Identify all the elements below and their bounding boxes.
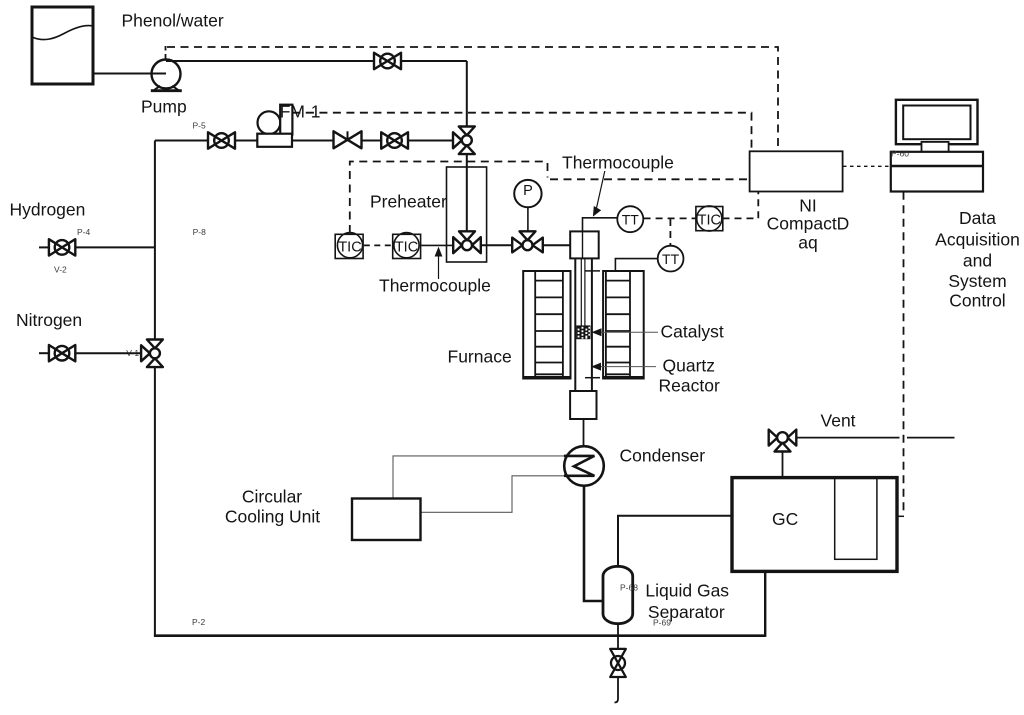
wire port box to TT1 [583,218,618,231]
svg-text:Catalyst: Catalyst [661,321,724,341]
svg-text:Phenol/water: Phenol/water [122,10,224,30]
svg-text:V-2: V-2 [54,264,67,274]
dashed signal pump to NI [165,46,167,59]
wire nitrogen to junction valve [75,352,141,354]
svg-text:Data: Data [959,208,996,228]
wire separator to GC [618,516,732,566]
wire preheater valve to P valve to port box [481,244,570,246]
valve on P-5 line [208,132,235,148]
GC box [732,478,897,572]
wire hydrogen to main line [75,246,155,248]
wire bottom horizontal [154,634,765,637]
flow meter FM-1 [257,105,292,147]
vent valve [769,430,797,452]
svg-text:Reactor: Reactor [659,375,720,395]
wire hydrogen stub [39,246,49,248]
computer base [891,152,983,192]
wire to condenser [583,419,585,447]
svg-text:Acquisition: Acquisition [935,229,1020,249]
GC inner column [835,478,877,560]
svg-text:Pump: Pump [141,97,187,117]
gate valve on P-5 line [334,131,362,148]
wire separator drain [617,624,619,649]
P 3-way valve [512,231,543,252]
tank Phenol/water [32,7,93,84]
dashed computer to GC [903,192,905,514]
svg-text:Cooling Unit: Cooling Unit [225,506,320,526]
TIC controller 3 [696,206,723,231]
catalyst bed [576,325,590,339]
preheater 3-way valve [453,231,481,253]
thermocouple wire through port box [582,231,584,258]
3-way valve junction P-5/pump line [453,127,475,155]
wire TT2 to furnace [615,259,657,271]
wire vent line [796,437,954,439]
nitrogen junction 3-way valve [141,340,163,368]
furnace right column [603,271,644,379]
wire tank to pump [93,73,166,75]
dashed TT1 to TIC3 [644,217,696,219]
thermocouple tube inside reactor [581,258,585,325]
svg-text:P-68: P-68 [620,583,638,593]
svg-text:aq: aq [798,232,817,252]
svg-text:Thermocouple: Thermocouple [379,275,491,295]
NI CompactDaq box [750,151,843,191]
TIC controller 1 [335,233,363,259]
globe valve on P-5 line [381,132,408,148]
svg-text:System: System [948,271,1006,291]
svg-text:Thermocouple: Thermocouple [562,152,674,172]
svg-text:Liquid Gas: Liquid Gas [645,581,729,601]
svg-text:Condenser: Condenser [620,445,706,465]
svg-text:Furnace: Furnace [448,347,512,367]
TIC controller 2 [393,233,421,259]
svg-text:P: P [523,183,533,199]
svg-text:TIC: TIC [698,213,721,229]
drain valve [610,649,626,677]
reactor port box [570,231,599,258]
arrow thermocouple reactor [597,171,605,208]
svg-text:NI: NI [799,196,817,216]
pressure gauge P [514,180,541,231]
svg-text:P-5: P-5 [193,121,207,131]
arrow thermocouple preheater [438,255,440,280]
cooling water lines [393,456,564,498]
svg-text:P-4: P-4 [77,227,91,237]
pump P1 [151,60,182,91]
svg-text:Hydrogen: Hydrogen [10,200,86,220]
wire drain outlet [615,677,619,703]
wire TIC2 to preheater valve [421,244,453,246]
wire GC leg [764,571,766,637]
svg-text:P-2: P-2 [192,617,206,627]
tick furnace top [585,270,600,272]
dashed TIC1-TIC2 [364,244,392,246]
nitrogen valve [49,345,75,361]
svg-text:Circular: Circular [242,486,302,506]
wire pump discharge [166,61,467,127]
dashed NI to computer [843,165,890,167]
valve on pump discharge [374,53,401,69]
preheater box [447,167,487,262]
wire valve to preheater valve [466,154,468,231]
dashed hook into GC [898,515,905,517]
dashed TIC3 to NI [723,192,759,218]
svg-text:CompactD: CompactD [767,214,850,234]
wire condenser to separator [584,486,604,601]
svg-text:Preheater: Preheater [370,191,447,211]
wire left main vertical [154,141,156,636]
dashed branch to TT2 [669,219,671,245]
liquid gas separator [603,566,633,623]
svg-text:Control: Control [949,291,1005,311]
condenser [564,446,604,486]
svg-text:and: and [963,250,992,270]
svg-text:TT: TT [662,251,680,267]
wire nitrogen stub [39,352,49,354]
svg-text:TT: TT [622,212,640,228]
circular cooling unit box [352,499,421,541]
tick furnace bottom [585,377,600,379]
wire GC to vent valve [782,451,784,477]
svg-text:TIC: TIC [395,239,418,255]
svg-text:GC: GC [772,509,798,529]
reactor lower box [570,391,596,419]
quartz reactor tube [575,258,592,391]
svg-text:Nitrogen: Nitrogen [16,310,82,330]
svg-text:P-69: P-69 [653,617,671,627]
computer monitor [896,100,978,152]
svg-text:P-60: P-60 [891,149,909,159]
dashed FM-1 signal to NI [292,113,751,150]
transmitter TT2 [658,246,684,272]
svg-text:P-8: P-8 [193,227,207,237]
svg-text:FM-1: FM-1 [280,102,321,122]
svg-text:Vent: Vent [821,410,856,430]
svg-text:Quartz: Quartz [663,355,716,375]
wire P-5 line [155,140,453,142]
furnace left column [523,271,570,379]
dashed TIC1 riser and line to NI [350,162,749,234]
hydrogen valve V-2 [49,239,75,255]
transmitter TT1 [617,206,643,232]
svg-text:TIC: TIC [338,239,361,255]
